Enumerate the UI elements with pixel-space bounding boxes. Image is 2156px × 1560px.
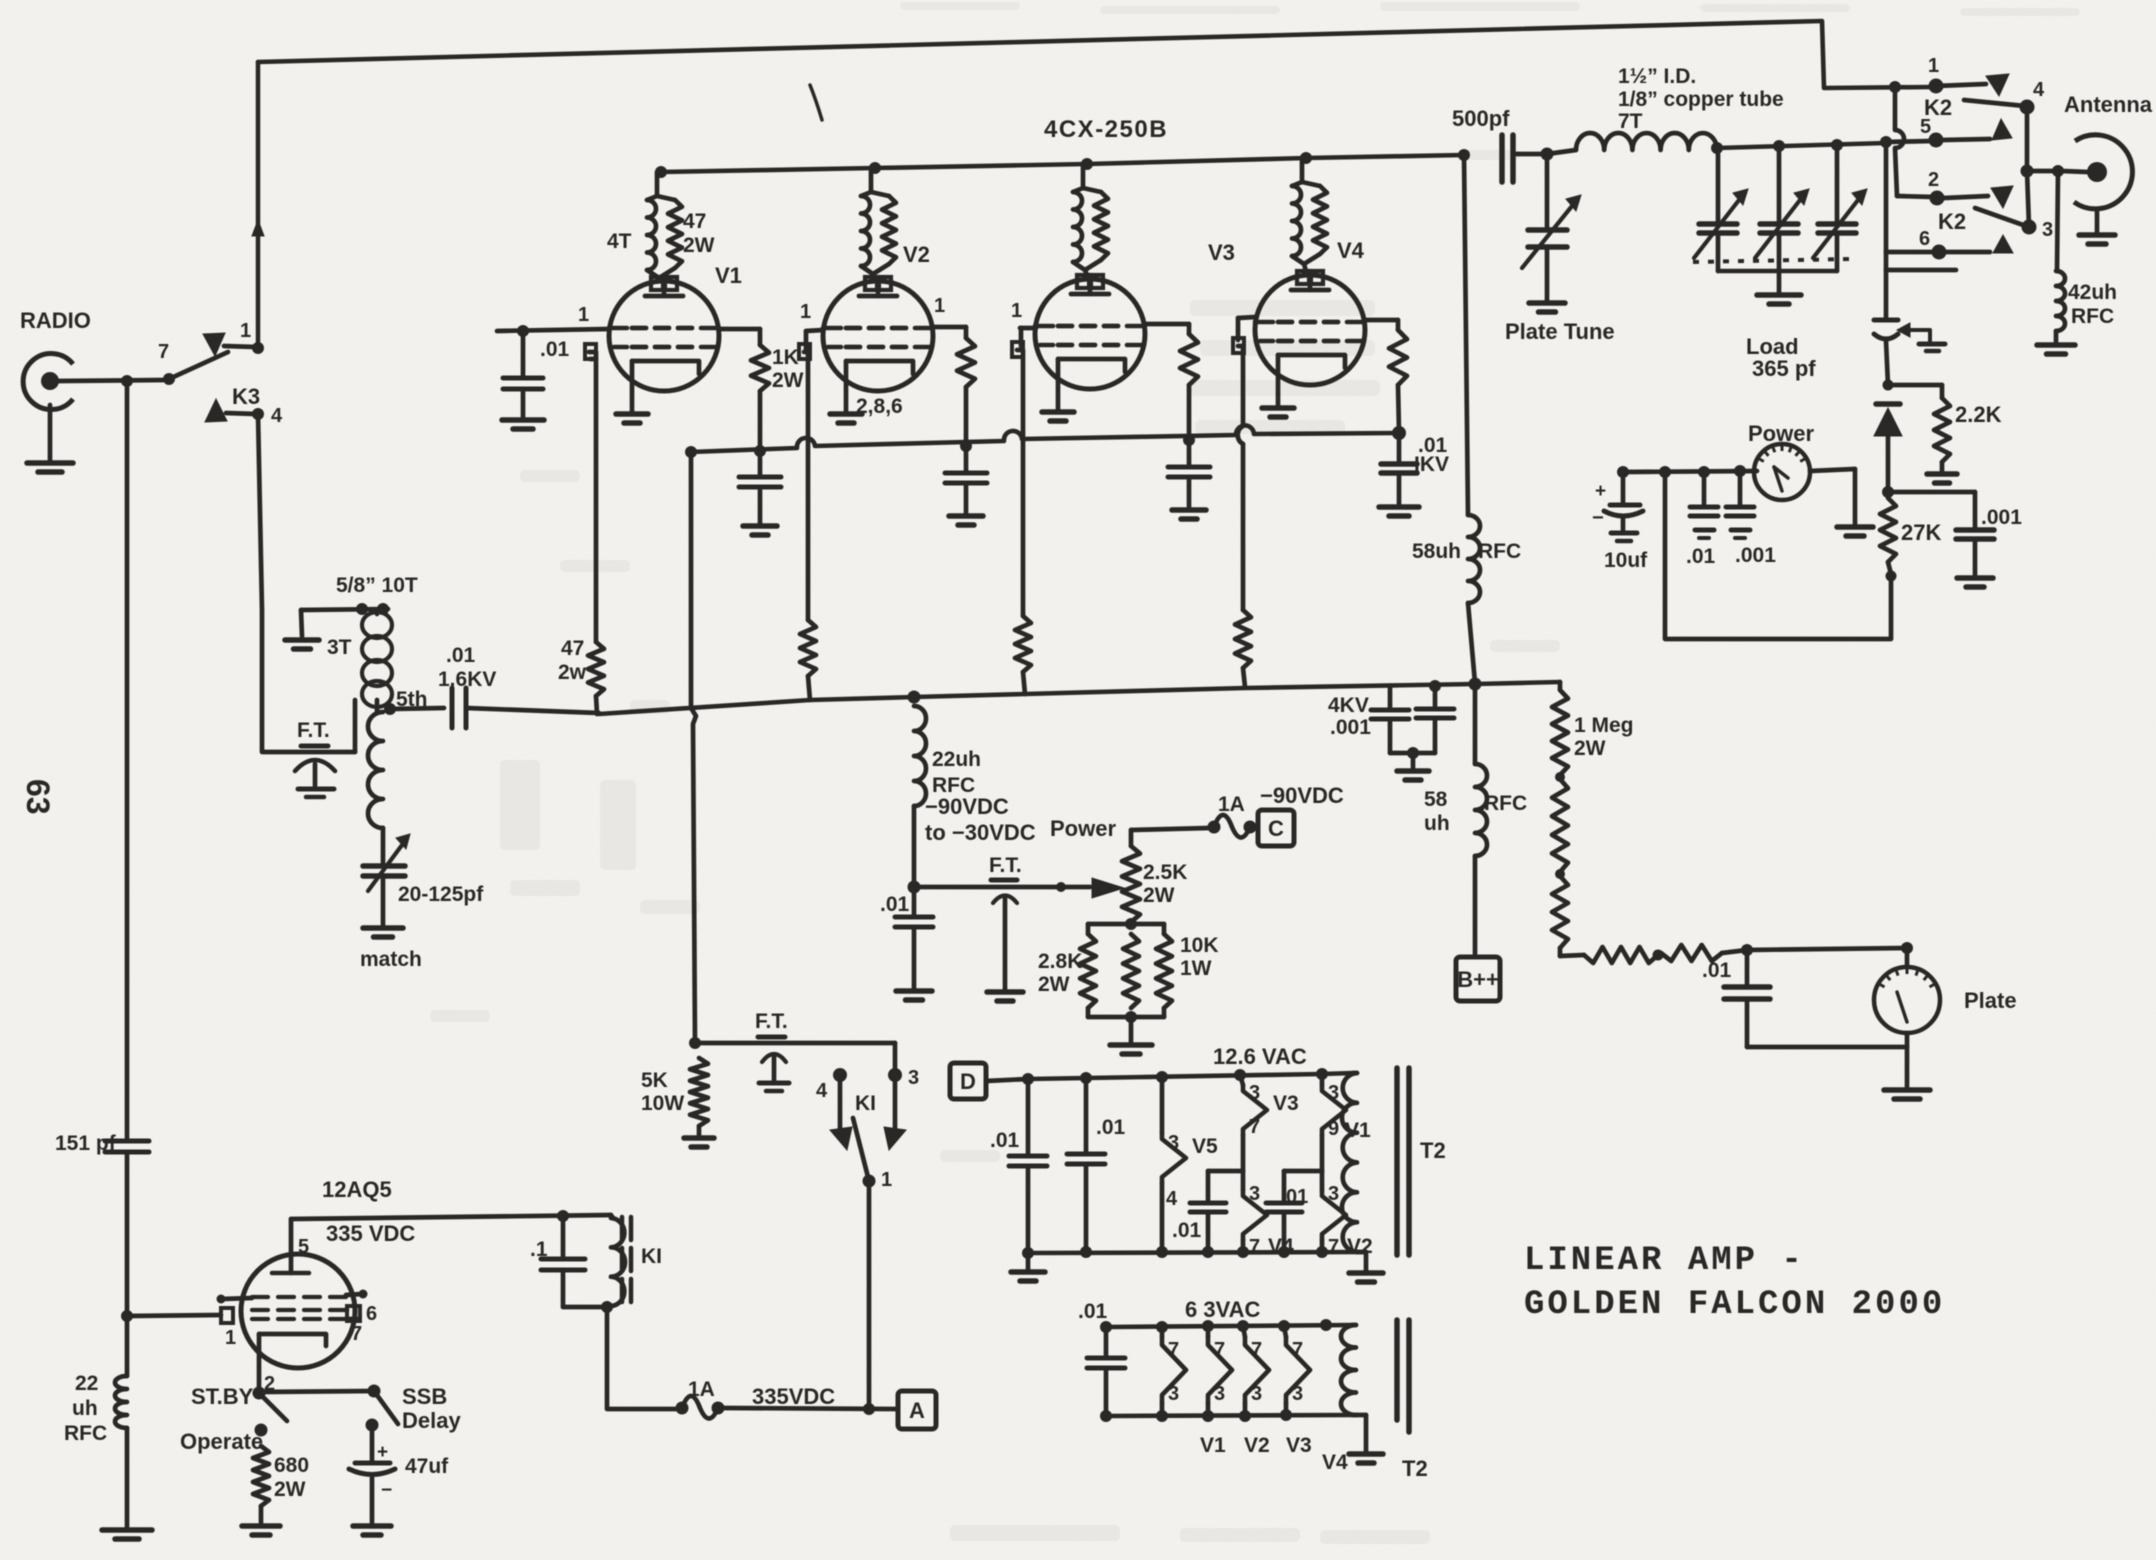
capacitor .01 (6.3 bus) <box>1104 1327 1109 1356</box>
parasitic suppressor coil+resistor <box>1081 164 1086 188</box>
capacitor .01 (D bus 1) <box>1026 1079 1031 1154</box>
input coil 5/8in 10T upper winding <box>362 612 392 638</box>
ground at 12.6 bus left <box>1026 1253 1031 1270</box>
svg-text:+: + <box>377 1442 388 1463</box>
svg-text:RFC: RFC <box>1484 792 1527 815</box>
switch ST.BY / Operate <box>253 1387 266 1400</box>
tube V5 12AQ5 envelope <box>241 1254 355 1368</box>
svg-text:7: 7 <box>1214 1339 1225 1361</box>
V3 grid line left <box>1020 326 1036 331</box>
terminal box C <box>1256 825 1258 830</box>
variable capacitors Load 365 pf (3-gang) <box>1716 148 1721 222</box>
V2 grid line right and grid resistor <box>933 325 966 330</box>
svg-text:SSB: SSB <box>402 1384 447 1409</box>
V4 grid line left stub <box>1238 317 1256 318</box>
resistor 2.2K <box>1883 380 1894 391</box>
svg-text:680: 680 <box>274 1454 309 1477</box>
wire pot top to fuse and C terminal <box>1131 828 1209 830</box>
junction bias line <box>908 881 921 894</box>
wire anode bus down through plate choke <box>1458 149 1470 161</box>
svg-text:1A: 1A <box>688 1378 715 1401</box>
svg-text:6: 6 <box>366 1303 377 1325</box>
svg-text:1/8” copper tube: 1/8” copper tube <box>1618 88 1784 111</box>
svg-text:7: 7 <box>351 1323 362 1345</box>
svg-text:1: 1 <box>1011 300 1022 322</box>
svg-text:Plate: Plate <box>1964 988 2017 1013</box>
T2 6.3V secondary coil <box>1341 1325 1356 1415</box>
heater winding V2 6.3V <box>1206 1326 1211 1337</box>
svg-text:1.6KV: 1.6KV <box>438 668 496 691</box>
svg-text:.001: .001 <box>1981 506 2022 529</box>
svg-text:2W: 2W <box>772 369 804 392</box>
svg-text:4: 4 <box>2033 79 2045 101</box>
capacitor .01 1.6KV input coupling <box>390 708 444 709</box>
svg-text:1: 1 <box>225 1327 236 1349</box>
input coil 5/8in 10T top node <box>301 609 388 610</box>
svg-text:KI: KI <box>855 1092 876 1115</box>
svg-text:V1: V1 <box>1200 1434 1226 1457</box>
tank coil 1.5in ID copper tube 7T <box>1576 133 1717 150</box>
svg-text:4: 4 <box>816 1080 828 1102</box>
resistor 1K 2W (V1 grid to bias bus) <box>719 327 760 332</box>
svg-text:7: 7 <box>1328 1236 1339 1258</box>
V2 plate cap <box>865 277 877 290</box>
svg-text:7: 7 <box>1251 1339 1262 1361</box>
svg-text:42uh: 42uh <box>2068 281 2117 304</box>
svg-text:V2: V2 <box>1244 1434 1270 1457</box>
svg-text:22: 22 <box>75 1372 98 1395</box>
V3 plate cap <box>1077 275 1089 288</box>
svg-text:Power: Power <box>1748 421 1814 446</box>
svg-text:335 VDC: 335 VDC <box>326 1221 415 1246</box>
svg-text:3: 3 <box>908 1067 919 1089</box>
svg-text:5K: 5K <box>641 1069 668 1092</box>
svg-text:7: 7 <box>158 341 169 363</box>
resistor 5K 10W <box>689 1037 701 1049</box>
tube V1 4CX-250B envelope <box>609 281 719 391</box>
meter right lead to ground <box>1810 469 1855 471</box>
svg-text:.01: .01 <box>880 893 910 916</box>
svg-text:63: 63 <box>20 779 56 815</box>
relay K2 upper blade to node 4 <box>1964 100 2025 106</box>
T2 core <box>1394 1068 1400 1255</box>
RADIO coax connector <box>23 354 73 410</box>
svg-text:V4: V4 <box>1322 1451 1348 1474</box>
stub wire below node 6 <box>1884 252 1889 270</box>
svg-text:3: 3 <box>2042 219 2053 241</box>
svg-text:47: 47 <box>561 637 584 660</box>
wire to K1 pin3 <box>695 1041 895 1046</box>
svg-text:7T: 7T <box>1618 110 1643 133</box>
capacitor 47uf electrolytic <box>366 1419 379 1432</box>
relay K2 lower blade to node 3 <box>1975 208 2026 226</box>
svg-text:6: 6 <box>1919 228 1930 250</box>
svg-text:7: 7 <box>1249 1236 1260 1258</box>
capacitor .01 between V1/V2 windings <box>1284 1169 1322 1174</box>
capacitor 10uf electrolytic <box>1621 472 1626 503</box>
svg-text:−90VDC: −90VDC <box>925 794 1009 819</box>
svg-text:2,8,6: 2,8,6 <box>856 395 903 418</box>
svg-text:4T: 4T <box>607 230 632 253</box>
terminal box B++ <box>1456 957 1500 1001</box>
svg-text:1: 1 <box>578 304 589 326</box>
capacitor .001 at 27K <box>1888 490 1975 495</box>
svg-text:.1: .1 <box>530 1238 548 1261</box>
svg-text:1½” I.D.: 1½” I.D. <box>1618 65 1696 88</box>
svg-text:3T: 3T <box>327 636 352 659</box>
svg-text:12.6 VAC: 12.6 VAC <box>1213 1044 1307 1069</box>
capacitor .01 bypass at meter <box>1702 472 1707 505</box>
wire pin2 to SSB Delay switch <box>259 1391 374 1392</box>
svg-text:Operate: Operate <box>180 1429 263 1454</box>
T2 6.3 core <box>1394 1320 1400 1420</box>
svg-text:.001: .001 <box>1735 544 1776 567</box>
feedback loop wire to meter bus <box>1665 473 1891 639</box>
heater winding V1 6.3V <box>1160 1327 1165 1337</box>
V4 grid line right and grid resistor <box>1365 318 1398 323</box>
svg-text:2W: 2W <box>1038 973 1070 996</box>
svg-text:4: 4 <box>271 405 283 427</box>
antenna feed wire <box>2027 169 2062 174</box>
svg-text:.001: .001 <box>1330 716 1371 739</box>
anode bus wire <box>661 155 1464 172</box>
svg-text:2W: 2W <box>274 1478 306 1501</box>
12.6 VAC return bus <box>1028 1252 1366 1253</box>
link node1 column to node 2 <box>1895 87 1904 196</box>
parasitic suppressor coil+resistor <box>655 172 660 196</box>
gang dotted line <box>1693 259 1850 262</box>
wire RADIO to K3 and left rail <box>58 380 166 381</box>
svg-text:F.T.: F.T. <box>755 1010 788 1033</box>
diode (bias rectifier) <box>1876 401 1900 407</box>
wire upper bias bus down to K1 area <box>691 452 696 1043</box>
resistors 2.8K 2W / 10K 1W parallel block <box>1125 918 1137 930</box>
svg-text:2W: 2W <box>683 234 715 257</box>
relay K1 contact pin4 <box>833 1068 847 1082</box>
svg-text:58: 58 <box>1424 788 1448 811</box>
transformer T2 secondary coil (12.6V) <box>1342 1073 1357 1252</box>
relay K2 lower NC contact node 6 <box>1884 142 1889 252</box>
6.3 VAC top bus <box>1106 1325 1353 1327</box>
svg-text:.01: .01 <box>1172 1219 1202 1242</box>
fuse 1A (-90VDC) <box>1208 821 1221 834</box>
svg-text:V3: V3 <box>1273 1092 1299 1115</box>
svg-text:27K: 27K <box>1901 520 1941 545</box>
svg-text:3: 3 <box>1168 1383 1179 1405</box>
tube V3 4CX-250B envelope <box>1035 279 1145 389</box>
svg-text:6 3VAC: 6 3VAC <box>1185 1297 1261 1322</box>
svg-text:5: 5 <box>298 1236 309 1258</box>
svg-text:20-125pf: 20-125pf <box>398 883 484 906</box>
input coil lower winding <box>368 712 383 828</box>
svg-text:D: D <box>960 1069 976 1094</box>
svg-text:RFC: RFC <box>2071 305 2114 328</box>
svg-text:V3: V3 <box>1286 1434 1312 1457</box>
capacitor .01 (D bus 2) <box>1084 1078 1089 1152</box>
svg-text:V1: V1 <box>715 263 742 288</box>
12AQ5 pin6 pin7 tabs <box>347 1306 360 1321</box>
switch SSB Delay <box>368 1385 381 1398</box>
svg-text:KI: KI <box>641 1245 662 1268</box>
svg-text:Delay: Delay <box>402 1408 461 1433</box>
V4 cathode tab lead to lower resistor <box>1233 338 1244 353</box>
capacitor .01 bias bypass <box>912 887 917 915</box>
heater winding V3 (pins 3-7) <box>1240 1075 1243 1085</box>
svg-text:V2: V2 <box>903 242 930 267</box>
relay K1 armature to pin1 <box>853 1118 869 1181</box>
resistor 1 Meg 2W <box>1558 682 1563 690</box>
svg-text:4: 4 <box>1166 1188 1178 1210</box>
svg-text:3: 3 <box>1168 1132 1179 1154</box>
V3 cathode tab lead to lower resistor <box>1012 342 1023 357</box>
RF choke 58uh (plate) <box>1468 515 1480 603</box>
ground at left rail bottom <box>102 1527 152 1533</box>
bias wire to potentiometer wiper <box>914 885 1090 890</box>
svg-text:T2: T2 <box>1402 1456 1428 1481</box>
svg-text:LINEAR AMP -: LINEAR AMP - <box>1524 1242 1805 1280</box>
meter bus wire <box>1623 471 1757 472</box>
svg-text:1: 1 <box>934 295 945 317</box>
svg-text:58uh: 58uh <box>1412 540 1461 563</box>
wire node1 up the left riser to top wire <box>256 62 261 348</box>
V3 grid line right and grid resistor <box>1145 322 1189 327</box>
svg-text:3: 3 <box>1249 1183 1260 1205</box>
svg-text:.01: .01 <box>990 1129 1020 1152</box>
left rail wire from RADIO junction down <box>125 381 130 1139</box>
svg-text:500pf: 500pf <box>1452 106 1510 131</box>
svg-text:3: 3 <box>1249 1082 1260 1104</box>
heater winding V3 6.3V <box>1243 1326 1245 1337</box>
capacitor .01 1KV at V4 grid node <box>1392 426 1406 440</box>
svg-text:T2: T2 <box>1420 1138 1446 1163</box>
svg-text:47: 47 <box>683 210 706 233</box>
svg-text:7: 7 <box>1168 1339 1179 1361</box>
V1 cathode-tab lead and resistor 47 2w <box>585 344 596 359</box>
svg-text:V3: V3 <box>1208 240 1235 265</box>
relay K3 contacts <box>163 373 175 385</box>
svg-text:1: 1 <box>1928 55 1939 77</box>
resistor 680 2W <box>253 1446 269 1506</box>
junction at plate tune <box>1541 148 1554 161</box>
svg-text:1 Meg: 1 Meg <box>1574 714 1634 737</box>
svg-text:.01: .01 <box>540 338 570 361</box>
svg-text:4CX-250B: 4CX-250B <box>1044 116 1168 143</box>
V1 cathode <box>632 361 699 374</box>
relay K2 upper NC contact node 5 <box>1880 136 1892 148</box>
variable capacitor Plate Tune <box>1545 154 1550 228</box>
ground at 6.3 secondary <box>1356 1413 1366 1418</box>
svg-text:RFC: RFC <box>1478 540 1521 563</box>
V1 grid dashes <box>632 326 646 331</box>
12.6 VAC bus <box>986 1079 1028 1081</box>
svg-text:151 pf: 151 pf <box>55 1132 117 1155</box>
V4 grid dashes <box>1278 320 1292 325</box>
bypass capacitor at V3 grid node <box>1183 434 1195 446</box>
V1 grid line and .01 bypass cap <box>497 329 609 331</box>
12AQ5 plate and pin 5 lead <box>272 1271 309 1276</box>
V2 grid dashes <box>846 326 860 331</box>
V3 grid dashes <box>1058 324 1072 329</box>
svg-text:2: 2 <box>1928 169 1939 191</box>
svg-text:.01: .01 <box>1078 1300 1108 1323</box>
12AQ5 cathode <box>259 1334 326 1346</box>
svg-text:K2: K2 <box>1938 209 1966 234</box>
svg-text:uh: uh <box>72 1397 98 1420</box>
svg-text:2w: 2w <box>558 661 587 684</box>
capacitor .1 across K1 coil <box>557 1210 569 1222</box>
relay K2 upper: node 1 <box>1889 81 1901 93</box>
svg-text:RADIO: RADIO <box>20 308 91 333</box>
parasitic suppressor coil+resistor <box>1300 158 1305 182</box>
svg-text:Power: Power <box>1050 816 1116 841</box>
ground stub at coil top <box>301 610 302 636</box>
svg-text:01: 01 <box>1286 1186 1308 1208</box>
6.3 VAC return bus <box>1106 1415 1352 1416</box>
svg-text:1: 1 <box>881 1169 892 1191</box>
capacitor .001 bypass at meter <box>1738 471 1743 505</box>
coupling capacitor with trimmer arrow <box>1884 270 1889 318</box>
svg-text:5/8” 10T: 5/8” 10T <box>336 574 418 597</box>
svg-text:to −30VDC: to −30VDC <box>925 820 1036 845</box>
svg-text:C: C <box>1268 816 1284 841</box>
svg-text:uh: uh <box>1424 812 1450 835</box>
relay K2 lower: node 2 <box>1897 196 1934 197</box>
svg-text:ST.BY: ST.BY <box>191 1384 254 1409</box>
svg-text:+: + <box>1595 481 1606 502</box>
stray pen mark <box>810 85 822 120</box>
V2 grid line left <box>806 330 823 331</box>
wire node4 down to input network <box>258 414 355 752</box>
svg-text:1: 1 <box>240 320 251 342</box>
tube V2 4CX-250B envelope <box>823 281 933 391</box>
heater winding V4 6.3V <box>1284 1326 1286 1337</box>
ground at T2 secondary <box>1364 1252 1369 1271</box>
antenna coax connector <box>2074 135 2132 209</box>
resistor chain to Plate meter <box>1584 947 1658 963</box>
svg-text:Plate Tune: Plate Tune <box>1505 319 1615 344</box>
tap 5th on input coil <box>384 703 396 715</box>
svg-text:Antenna: Antenna <box>2064 92 2153 117</box>
V2 cathode <box>846 361 913 374</box>
terminal box A <box>898 1391 936 1429</box>
V2 cathode tab lead to lower resistor <box>799 344 810 359</box>
svg-text:3: 3 <box>1328 1183 1339 1205</box>
capacitor .01 at Plate meter <box>1745 950 1750 985</box>
svg-text:V2: V2 <box>1347 1235 1373 1258</box>
svg-text:3: 3 <box>1251 1383 1262 1405</box>
svg-text:7: 7 <box>1292 1339 1303 1361</box>
top wire across page <box>258 21 1932 88</box>
svg-text:−: − <box>381 1480 392 1501</box>
ground at RADIO connector <box>48 405 53 461</box>
grid bias bus wire <box>599 682 1560 714</box>
svg-text:365 pf: 365 pf <box>1752 356 1816 381</box>
svg-text:2.8K: 2.8K <box>1038 950 1082 973</box>
ground at antenna <box>2095 209 2100 233</box>
svg-text:3: 3 <box>1292 1383 1303 1405</box>
svg-text:1: 1 <box>800 301 811 323</box>
svg-text:−: − <box>1592 507 1604 529</box>
resistor 27K <box>1880 498 1896 562</box>
V1 plate cap <box>651 277 663 290</box>
12AQ5 grid dashes <box>252 1295 268 1299</box>
bypass capacitor at V2 grid node <box>960 440 972 452</box>
capacitors .001 4KV pair <box>1429 680 1441 692</box>
potentiometer 2.5K 2W Power <box>1129 830 1134 846</box>
svg-text:match: match <box>360 948 422 971</box>
V4 plate cap <box>1297 271 1309 284</box>
RF choke 42uh RFC <box>2057 171 2058 271</box>
svg-text:−90VDC: −90VDC <box>1260 783 1344 808</box>
svg-text:9: 9 <box>1328 1118 1339 1140</box>
svg-text:F.T.: F.T. <box>297 719 330 742</box>
capacitor 151 pf <box>105 1139 149 1144</box>
wire K1 coil to fuse 1A <box>607 1307 676 1409</box>
svg-text:K3: K3 <box>232 384 260 409</box>
svg-text:3: 3 <box>1328 1082 1339 1104</box>
svg-text:10W: 10W <box>641 1092 684 1115</box>
terminal box D <box>950 1063 986 1099</box>
parasitic suppressor coil+resistor <box>869 168 874 192</box>
variable capacitor 20-125pf match <box>381 828 386 863</box>
relay K1 coil <box>611 1215 613 1218</box>
12AQ5 upper electrode leads <box>222 1298 252 1299</box>
heater winding V1 (pins 3-9) <box>1320 1074 1325 1085</box>
heater winding V5 (pins 3-4) <box>1160 1077 1165 1133</box>
RF choke 58 uh (B++ feed) <box>1473 684 1478 764</box>
svg-text:.01: .01 <box>1096 1116 1126 1139</box>
svg-text:10uf: 10uf <box>1604 549 1648 572</box>
svg-text:RFC: RFC <box>64 1422 107 1445</box>
wire 335 VDC from pin5 to K1 coil <box>291 1215 611 1219</box>
scan ghost artifacts (faint bleed-through) <box>430 2 2080 1544</box>
12AQ5 pin1 tab and lead <box>221 1308 233 1323</box>
RF choke 22uh RFC (bias bus) <box>908 691 921 704</box>
svg-text:2W: 2W <box>1143 884 1175 907</box>
V3 cathode <box>1058 359 1125 372</box>
svg-text:3: 3 <box>1214 1383 1225 1405</box>
svg-text:A: A <box>909 1398 925 1423</box>
heater winding V2 (pins 3-7) <box>1320 1171 1325 1190</box>
relay K1 contact pin3 <box>888 1068 902 1082</box>
V4 cathode <box>1278 355 1345 368</box>
tube V4 4CX-250B envelope <box>1255 275 1365 385</box>
meter Power <box>1754 444 1810 500</box>
svg-text:.01: .01 <box>446 644 476 667</box>
upper bias bus wire <box>691 425 1399 452</box>
svg-text:2W: 2W <box>1574 737 1606 760</box>
svg-text:F.T.: F.T. <box>989 854 1022 877</box>
svg-text:47uf: 47uf <box>405 1455 449 1478</box>
svg-text:.01: .01 <box>1686 545 1716 568</box>
wire node4 to antenna junction <box>2025 107 2030 171</box>
svg-text:22uh: 22uh <box>932 748 981 771</box>
svg-text:IKV: IKV <box>1414 453 1449 476</box>
svg-text:2.5K: 2.5K <box>1143 861 1187 884</box>
wire 335VDC to A terminal <box>724 1408 896 1409</box>
heater winding V4 (pins 3-7) <box>1241 1171 1246 1190</box>
svg-text:1A: 1A <box>1218 793 1245 816</box>
svg-text:5: 5 <box>1920 116 1931 138</box>
meter Plate <box>1905 948 1910 967</box>
fuse 1A (335VDC) <box>676 1402 689 1415</box>
capacitor .01 between V3/V4 windings <box>1208 1169 1243 1174</box>
svg-text:V4: V4 <box>1337 238 1365 263</box>
junction to 12AQ5 pin 1 <box>121 1310 133 1322</box>
svg-text:2.2K: 2.2K <box>1955 402 2002 427</box>
svg-text:B++: B++ <box>1457 967 1499 992</box>
svg-text:GOLDEN FALCON 2000: GOLDEN FALCON 2000 <box>1524 1286 1945 1324</box>
